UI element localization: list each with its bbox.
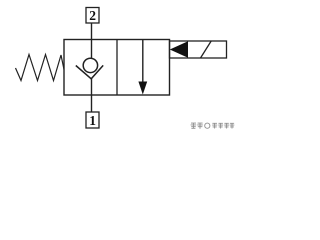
position divider (116, 40, 118, 96)
port 2 line (top) (91, 23, 93, 59)
svg-text:2: 2 (89, 8, 96, 23)
flow path arrow line (right position) (142, 40, 144, 83)
port 1 line (bottom) (91, 78, 93, 112)
solenoid triangle (armature, pointing to valve) (170, 41, 188, 58)
valve body (two-position envelope) (64, 40, 170, 96)
spring (return spring, left) (16, 55, 65, 81)
check valve seat (V) (76, 65, 103, 78)
flow path arrowhead (138, 82, 147, 95)
port 2 label box (86, 8, 99, 24)
solenoid box (170, 41, 227, 58)
watermark text blobs (bottom right) (191, 123, 235, 129)
svg-text:1: 1 (89, 113, 96, 128)
solenoid proportional slash (201, 41, 212, 58)
port 1 label box (86, 112, 99, 128)
check valve ball (circle) (83, 58, 97, 72)
